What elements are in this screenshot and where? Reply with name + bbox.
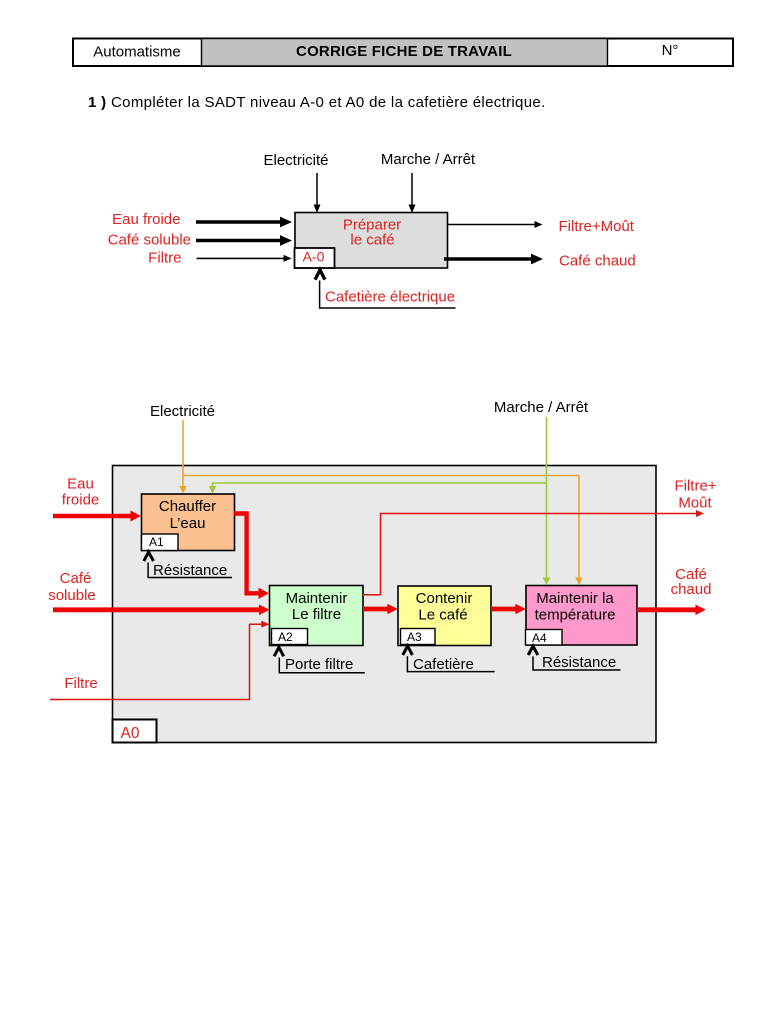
wire: Marche/Arrêt control arrow into box bbox=[409, 173, 416, 213]
mechanism pointer Porte filtre (A2) bbox=[274, 647, 365, 673]
wire: thick red Eau froide input bbox=[53, 511, 141, 522]
svg-text:Porte filtre: Porte filtre bbox=[285, 656, 353, 673]
wire: thick input arrow Café soluble bbox=[196, 235, 292, 246]
svg-text:Cafetière électrique: Cafetière électrique bbox=[325, 289, 455, 306]
wire: thick red Contenir -> Maintenir la température bbox=[491, 604, 526, 615]
svg-text:A1: A1 bbox=[149, 535, 164, 549]
svg-text:A4: A4 bbox=[532, 631, 547, 645]
svg-text:L’eau: L’eau bbox=[170, 515, 206, 532]
svg-text:le café: le café bbox=[350, 232, 394, 249]
svg-text:Résistance: Résistance bbox=[542, 654, 616, 671]
wire: green branch to Chauffer bbox=[209, 483, 547, 494]
wire: thick red Café soluble input bbox=[53, 605, 269, 616]
svg-text:Café: Café bbox=[60, 570, 92, 587]
svg-text:Filtre: Filtre bbox=[148, 250, 181, 267]
svg-text:Filtre+: Filtre+ bbox=[674, 478, 716, 495]
wire: thin input arrow Filtre bbox=[197, 255, 292, 262]
svg-text:Café chaud: Café chaud bbox=[559, 253, 636, 270]
mechanism pointer Résistance (A4) bbox=[528, 646, 620, 670]
svg-text:soluble: soluble bbox=[48, 587, 96, 604]
wire: thick input arrow Eau froide bbox=[196, 217, 292, 228]
node label box A1 bbox=[142, 534, 179, 551]
node label box A0 bbox=[113, 720, 157, 743]
mechanism pointer Résistance (A1) bbox=[144, 552, 232, 578]
svg-text:1 ) Compléter la SADT niveau A: 1 ) Compléter la SADT niveau A-0 et A0 d… bbox=[88, 94, 546, 111]
wire: orange branch to Maintenir la température bbox=[183, 476, 583, 586]
svg-text:Electricité: Electricité bbox=[150, 403, 215, 420]
wire: thin output arrow Filtre+Moût bbox=[448, 221, 543, 228]
wire: thin red Filtre+Moût from Maintenir le filtre bbox=[363, 510, 704, 595]
svg-text:froide: froide bbox=[62, 492, 100, 509]
mechanism pointer Cafetière électrique bbox=[315, 270, 455, 308]
svg-text:CORRIGE FICHE DE TRAVAIL: CORRIGE FICHE DE TRAVAIL bbox=[296, 43, 512, 60]
wire: thick red Maintenir le filtre -> Contenir bbox=[363, 604, 398, 615]
header table bbox=[73, 39, 733, 67]
wire: green Marche/Arrêt down into Maintenir la température bbox=[543, 417, 551, 585]
svg-text:Chauffer: Chauffer bbox=[159, 498, 216, 515]
wire: thick red from Chauffer to Maintenir le filtre bbox=[234, 514, 269, 600]
node label box A3 bbox=[401, 629, 436, 645]
wire: thick red output Café chaud bbox=[637, 605, 706, 616]
wire: thick output arrow Café chaud bbox=[444, 254, 543, 265]
svg-text:Marche / Arrêt: Marche / Arrêt bbox=[494, 399, 589, 416]
node label box A4 bbox=[526, 630, 563, 646]
wire: thin red Filtre input bbox=[50, 621, 269, 700]
svg-text:Marche / Arrêt: Marche / Arrêt bbox=[381, 151, 476, 168]
svg-text:A-0: A-0 bbox=[303, 249, 325, 265]
svg-text:A0: A0 bbox=[121, 725, 140, 742]
svg-text:A2: A2 bbox=[278, 630, 293, 644]
svg-text:N°: N° bbox=[662, 42, 679, 59]
svg-text:Filtre+Moût: Filtre+Moût bbox=[559, 218, 635, 235]
big A0 boundary box bbox=[113, 466, 657, 743]
svg-text:Cafetière: Cafetière bbox=[413, 656, 474, 673]
svg-text:Maintenir la: Maintenir la bbox=[536, 590, 614, 607]
svg-text:Moût: Moût bbox=[678, 495, 712, 512]
mechanism pointer Cafetière (A3) bbox=[403, 646, 495, 672]
wire: Electricité control arrow into box bbox=[314, 173, 321, 213]
svg-text:température: température bbox=[535, 607, 616, 624]
svg-text:Le filtre: Le filtre bbox=[292, 606, 341, 623]
function box A2 Maintenir Le filtre bbox=[270, 586, 364, 646]
wire: orange Electricité down into Chauffer bbox=[179, 420, 187, 494]
function box A1 Chauffer L'eau bbox=[142, 494, 235, 551]
svg-text:chaud: chaud bbox=[671, 581, 712, 598]
svg-text:Eau froide: Eau froide bbox=[112, 211, 180, 228]
node label box A2 bbox=[272, 629, 308, 645]
svg-text:Maintenir: Maintenir bbox=[286, 590, 348, 607]
function box A4 Maintenir la température bbox=[526, 586, 637, 646]
svg-text:Café soluble: Café soluble bbox=[108, 232, 191, 249]
svg-text:Contenir: Contenir bbox=[416, 590, 473, 607]
function box A-0 "Préparer le café" bbox=[295, 213, 448, 269]
function box A3 Contenir Le café bbox=[398, 586, 491, 646]
svg-text:Eau: Eau bbox=[67, 476, 94, 493]
svg-text:Résistance: Résistance bbox=[153, 562, 227, 579]
svg-text:A3: A3 bbox=[407, 630, 422, 644]
node label box A-0 bbox=[295, 248, 335, 268]
svg-text:Electricité: Electricité bbox=[263, 152, 328, 169]
svg-text:Automatisme: Automatisme bbox=[93, 44, 181, 61]
svg-text:Filtre: Filtre bbox=[64, 675, 97, 692]
svg-text:Le café: Le café bbox=[418, 607, 467, 624]
